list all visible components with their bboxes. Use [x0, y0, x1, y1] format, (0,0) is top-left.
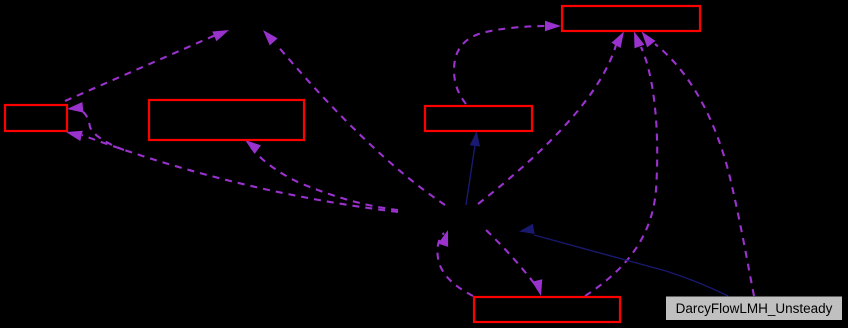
edge center node -> top node (dashed) [259, 26, 445, 205]
edge center node -> B upper (dashed) [66, 102, 124, 150]
node C (left wide red box) [149, 100, 304, 140]
node E (bottom red box) [474, 297, 620, 322]
edge center node -> E (dashed) [486, 230, 546, 297]
edge F -> center node (blue solid inheritance) [518, 224, 728, 296]
edge B -> top node (dashed) [65, 25, 231, 101]
node A (top right red box) [562, 6, 700, 31]
node B (left small red box) [5, 105, 67, 131]
edge D -> A (dashed) [454, 21, 561, 104]
node F (DarcyFlowLMH_Unsteady grey box) [666, 297, 842, 321]
edge center node -> B lower (dashed) [65, 127, 398, 212]
edge F -> A (dashed) [637, 28, 754, 296]
edge E -> A (dashed) [585, 30, 657, 296]
edge center node -> D (blue solid inheritance) [466, 130, 482, 205]
node D (middle red box) [425, 106, 532, 131]
edge center node -> C (dashed) [242, 136, 398, 210]
svg-text:DarcyFlowLMH_Unsteady: DarcyFlowLMH_Unsteady [676, 301, 833, 316]
edge E -> center node (dashed) [437, 228, 473, 296]
edge center node -> A (dashed) [478, 29, 629, 204]
